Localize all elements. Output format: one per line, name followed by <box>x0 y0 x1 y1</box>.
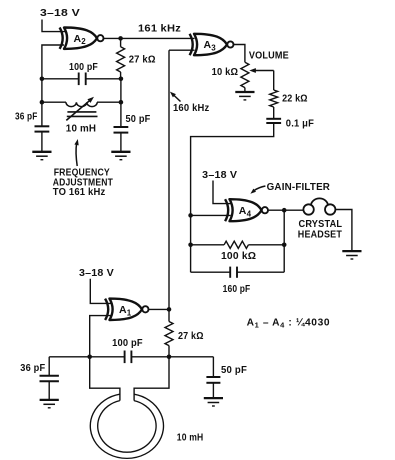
capacitor 50 pF (bottom) <box>206 376 220 378</box>
wire A2 bottom input to left rail <box>42 45 64 126</box>
wire inductor line left <box>42 101 66 103</box>
wire inductor line right <box>97 101 121 103</box>
resistor 100 kOhm feedback <box>191 244 225 246</box>
svg-text:100 pF: 100 pF <box>69 62 98 73</box>
svg-text:27 kΩ: 27 kΩ <box>178 331 204 342</box>
svg-text:22 kΩ: 22 kΩ <box>282 94 308 105</box>
inductor 10 mH loop inner turn <box>98 401 156 453</box>
node right rail bottom <box>167 355 172 360</box>
svg-text:A1 – A4 : ¼4030: A1 – A4 : ¼4030 <box>247 318 331 330</box>
svg-text:160 pF: 160 pF <box>223 284 251 295</box>
svg-text:3–18 V: 3–18 V <box>79 268 114 279</box>
svg-text:36 pF: 36 pF <box>15 112 38 123</box>
node left rail bottom <box>87 355 92 360</box>
wire 50pF to ground (bottom) <box>212 383 214 398</box>
resistor 27 kOhm (top) <box>120 38 122 46</box>
wire to 50pF (bottom) <box>212 357 214 377</box>
ground below 36 pF (bottom) <box>40 399 59 401</box>
node A2 output junction <box>118 36 123 41</box>
wire to 36pF (bottom) <box>48 357 50 376</box>
svg-text:10 kΩ: 10 kΩ <box>212 67 239 78</box>
resistor 27 kOhm (bottom) <box>168 309 170 321</box>
node right rail / inductor <box>119 100 124 105</box>
svg-text:3–18 V: 3–18 V <box>40 8 80 19</box>
capacitor 0.1 uF <box>266 118 281 120</box>
wire supply to A1 top input <box>90 279 110 304</box>
wire right coil lead <box>134 357 169 401</box>
svg-text:100 pF: 100 pF <box>112 338 143 349</box>
wire headset to ground <box>335 210 352 251</box>
node left rail / inductor <box>40 100 45 105</box>
wire 160 kHz line <box>168 50 170 309</box>
op-amp/gate A2 body <box>64 28 97 49</box>
wire bottom rail <box>49 356 124 358</box>
ground below 50 pF (bottom) <box>204 397 223 399</box>
inductor adjust arrow <box>66 100 90 121</box>
svg-text:10 mH: 10 mH <box>177 433 204 444</box>
potentiometer 10 kOhm <box>241 62 249 87</box>
node A4 input rail junction <box>188 213 193 218</box>
capacitor 50 pF (top) <box>114 126 129 128</box>
frequency adjustment callout arrow <box>76 144 77 167</box>
svg-text:GAIN-FILTER: GAIN-FILTER <box>267 182 331 193</box>
op-amp/gate A4 body <box>230 199 262 221</box>
node A1 output junction <box>167 307 172 312</box>
capacitor 36 pF (bottom) <box>40 375 59 377</box>
resistor 22 kOhm <box>270 90 278 107</box>
svg-text:50 pF: 50 pF <box>221 365 247 376</box>
wire A4 output rail <box>283 210 285 272</box>
inductor 10 mH loop outer turn <box>90 394 163 458</box>
inductor core bars <box>67 111 96 113</box>
node input rail / 100k <box>188 243 193 248</box>
wire 50pF to ground <box>120 133 122 152</box>
wire 0.1uF to A4 input rail <box>191 123 274 272</box>
capacitor 100 pF (bottom) <box>124 351 126 364</box>
160 kHz callout arrow <box>173 94 181 102</box>
wire A3 bottom input from 160kHz line <box>169 49 195 51</box>
node A4 output junction <box>282 208 287 213</box>
wire A1 output <box>149 308 170 310</box>
wire A3 output to volume pot <box>234 45 245 63</box>
svg-text:TO 161 kHz: TO 161 kHz <box>53 187 106 198</box>
wire A4 output <box>268 209 303 211</box>
wire pot to ground <box>244 88 246 92</box>
svg-text:161 kHz: 161 kHz <box>138 23 181 34</box>
wire supply to A2 top input <box>42 20 65 32</box>
svg-text:36 pF: 36 pF <box>20 363 45 374</box>
svg-text:CRYSTAL: CRYSTAL <box>299 219 343 230</box>
crystal headset left earpiece <box>303 204 313 214</box>
wire A2 output 161 kHz line <box>104 37 195 39</box>
node output rail / 100k <box>282 243 287 248</box>
node right rail / 100pF <box>119 77 124 82</box>
wire supply to A4 top input <box>213 181 231 204</box>
svg-text:10 mH: 10 mH <box>66 124 96 135</box>
ground below headset <box>342 250 361 252</box>
ground below 36 pF <box>32 151 51 153</box>
wire wiper to 22k <box>273 71 275 91</box>
capacitor 36 pF (top) <box>35 125 50 127</box>
wire 160pF line <box>191 271 231 273</box>
op-amp/gate A3 body <box>194 34 227 55</box>
wire left coil lead <box>90 357 120 401</box>
capacitor 100 pF (top) <box>78 73 80 86</box>
capacitor 160 pF feedback <box>229 267 231 278</box>
wire right rail to 50pF <box>120 79 122 127</box>
gain-filter callout arrow <box>254 186 266 191</box>
pot wiper arrow <box>253 70 274 72</box>
inductor 10 mH variable (coil) <box>66 102 97 106</box>
wire 100pF line (top) <box>42 78 79 80</box>
ground below 50 pF <box>111 151 130 153</box>
wire A1 bottom input to left rail <box>90 316 111 357</box>
wire 36pF to ground <box>41 132 43 152</box>
svg-text:VOLUME: VOLUME <box>249 51 289 62</box>
svg-text:27 kΩ: 27 kΩ <box>129 55 156 66</box>
ground below pot <box>235 91 254 93</box>
svg-text:160 kHz: 160 kHz <box>173 103 209 114</box>
wire A4 bottom input <box>191 214 231 216</box>
svg-text:100 kΩ: 100 kΩ <box>221 251 256 262</box>
svg-text:HEADSET: HEADSET <box>298 229 343 240</box>
svg-text:0.1 μF: 0.1 μF <box>286 119 314 130</box>
op-amp/gate A1 body <box>110 299 143 320</box>
svg-text:50 pF: 50 pF <box>126 114 151 125</box>
svg-text:3–18 V: 3–18 V <box>202 170 237 181</box>
crystal headset band <box>311 198 328 205</box>
wire 22k to 0.1uF <box>273 107 275 119</box>
crystal headset right earpiece <box>325 204 335 214</box>
wire 36pF to ground (bottom) <box>48 381 50 399</box>
node left rail / 100pF <box>40 77 45 82</box>
